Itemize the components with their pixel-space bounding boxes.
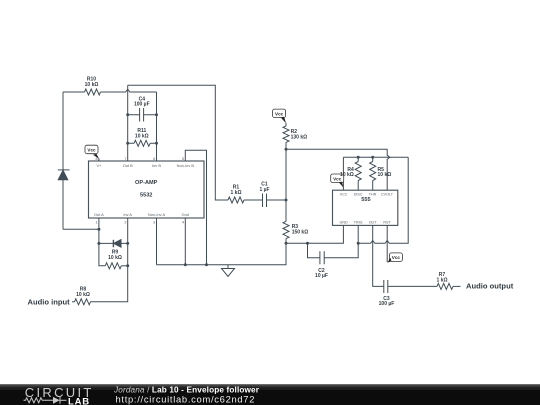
svg-text:10 kΩ: 10 kΩ: [340, 172, 354, 178]
svg-text:TRIG: TRIG: [354, 220, 363, 224]
wire top jog to R1 column: [128, 85, 228, 200]
svg-text:OP-AMP: OP-AMP: [135, 180, 158, 186]
op-amp pin stubs bottom: [99, 218, 185, 221]
svg-text:Out A: Out A: [94, 212, 104, 217]
wire ground rail: [157, 243, 287, 264]
wire vcc rail top: [343, 157, 408, 190]
label R7: [437, 272, 448, 283]
capacitor C1: [263, 194, 287, 208]
svg-text:GND: GND: [339, 220, 348, 224]
svg-text:1 µF: 1 µF: [259, 187, 269, 193]
capacitor C4: [128, 108, 157, 122]
Vcc flag R2: [273, 109, 286, 123]
wire RST pin: [386, 225, 388, 262]
svg-text:http://circuitlab.com/c62nd72: http://circuitlab.com/c62nd72: [116, 394, 256, 405]
svg-text:10 kΩ: 10 kΩ: [378, 172, 392, 178]
wire pin4 column: [184, 221, 186, 265]
label R8: [76, 287, 90, 298]
label R4: [340, 167, 354, 178]
svg-text:5532: 5532: [140, 193, 152, 199]
op-amp pin stubs top: [99, 158, 185, 161]
wire rail A gnd: [286, 225, 343, 243]
wire pin7 column rail: [127, 85, 129, 161]
Vcc flag 555: [331, 174, 344, 188]
svg-text:1: 1: [96, 219, 98, 224]
resistor R9: [105, 263, 127, 269]
label R10: [85, 77, 99, 88]
svg-text:555: 555: [361, 197, 370, 203]
svg-text:DISC: DISC: [354, 192, 363, 196]
svg-text:100 µF: 100 µF: [379, 301, 395, 307]
wire left rail: [62, 92, 64, 229]
node Audio output: [466, 282, 514, 291]
svg-text:Out B: Out B: [123, 163, 133, 168]
wire middle column: [285, 149, 287, 221]
svg-text:8: 8: [96, 156, 98, 161]
resistor R4: [355, 157, 361, 190]
svg-text:Inv B: Inv B: [152, 163, 161, 168]
svg-text:10 kΩ: 10 kΩ: [135, 134, 149, 140]
svg-text:VCC: VCC: [340, 192, 348, 196]
555 U2 labels: [339, 192, 393, 224]
logo CIRCUIT: [25, 385, 94, 400]
resistor R8: [72, 299, 91, 305]
resistor R11: [128, 140, 157, 146]
svg-text:150 kΩ: 150 kΩ: [292, 229, 309, 235]
svg-text:6: 6: [153, 156, 155, 161]
svg-text:3: 3: [153, 219, 155, 224]
svg-text:10 kΩ: 10 kΩ: [76, 292, 90, 298]
label R11: [135, 128, 149, 139]
resistor R3: [283, 221, 289, 243]
resistor R7: [437, 283, 461, 289]
label C2: [315, 268, 328, 279]
wire pin3 column: [156, 221, 158, 265]
resistor R5: [370, 157, 376, 190]
svg-text:THR: THR: [369, 192, 377, 196]
resistor R1: [228, 197, 263, 203]
svg-text:Gnd: Gnd: [182, 212, 189, 217]
wire pin6 column rail: [156, 92, 158, 161]
footer bar: [0, 384, 540, 405]
label C1: [259, 182, 269, 193]
junction dots: [97, 113, 374, 267]
svg-text:CVOLT: CVOLT: [381, 192, 394, 196]
555 timer U2 body: [333, 190, 398, 225]
svg-text:V+: V+: [96, 163, 102, 168]
svg-text:Vcc: Vcc: [392, 255, 401, 260]
wire pin1 column: [99, 221, 105, 266]
logo LAB: [68, 396, 90, 405]
op-amp pin numbers: [96, 156, 185, 224]
wire pin2 column to audio input: [91, 221, 128, 302]
footer title: [113, 385, 260, 394]
label R5: [378, 167, 392, 178]
wire pin5 loop: [185, 150, 206, 264]
label R2: [291, 129, 308, 140]
svg-text:1 kΩ: 1 kΩ: [231, 190, 242, 196]
svg-text:10 µF: 10 µF: [315, 273, 328, 279]
ground: [222, 265, 235, 277]
node Audio input: [28, 297, 71, 306]
diode D1: [58, 170, 70, 180]
svg-text:Inv A: Inv A: [123, 212, 132, 217]
logo resistor-diode: [24, 397, 67, 404]
svg-text:4: 4: [182, 219, 185, 224]
resistor R10: [85, 89, 101, 95]
capacitor C2 loop: [308, 243, 359, 264]
svg-text:7: 7: [124, 156, 126, 161]
svg-text:Vcc: Vcc: [275, 111, 284, 116]
label R9: [108, 250, 122, 261]
op-amp U1 body: [89, 161, 205, 218]
label C3: [379, 296, 395, 307]
svg-text:OUT: OUT: [369, 220, 378, 224]
resistor R2: [283, 123, 289, 150]
svg-text:Non-Inv B: Non-Inv B: [177, 163, 195, 168]
op-amp pin names: [94, 163, 194, 217]
svg-text:RST: RST: [383, 220, 391, 224]
svg-text:10 kΩ: 10 kΩ: [108, 255, 122, 261]
555 name: [361, 197, 370, 203]
svg-text:2: 2: [124, 219, 126, 224]
capacitor C3: [384, 280, 437, 293]
svg-text:5: 5: [182, 156, 184, 161]
svg-text:LAB: LAB: [68, 396, 90, 405]
label R3: [292, 224, 309, 235]
op-amp U1 labels: [135, 180, 158, 199]
svg-text:130 kΩ: 130 kΩ: [291, 134, 308, 140]
wire R10 row: [63, 89, 157, 92]
svg-text:Audio input: Audio input: [28, 297, 71, 306]
wire TRIG pin: [357, 225, 359, 243]
svg-text:Vcc: Vcc: [87, 148, 96, 153]
svg-text:10 kΩ: 10 kΩ: [85, 82, 99, 88]
svg-text:1 kΩ: 1 kΩ: [437, 277, 448, 283]
wire rail B with hops: [358, 157, 408, 243]
svg-text:100 µF: 100 µF: [134, 102, 150, 108]
wire node A to CVOLT jog: [286, 149, 390, 190]
footer url: [116, 394, 256, 405]
Vcc flag op-amp: [85, 145, 99, 159]
Vcc flag RST: [387, 253, 402, 263]
label C4: [134, 96, 150, 107]
svg-text:Non-Inv A: Non-Inv A: [148, 212, 165, 217]
wire OUT pin to C3: [373, 225, 384, 286]
label R1: [231, 185, 242, 196]
wire out A left branch: [63, 228, 99, 230]
svg-text:Audio output: Audio output: [466, 282, 514, 291]
diode D2: [99, 240, 128, 248]
